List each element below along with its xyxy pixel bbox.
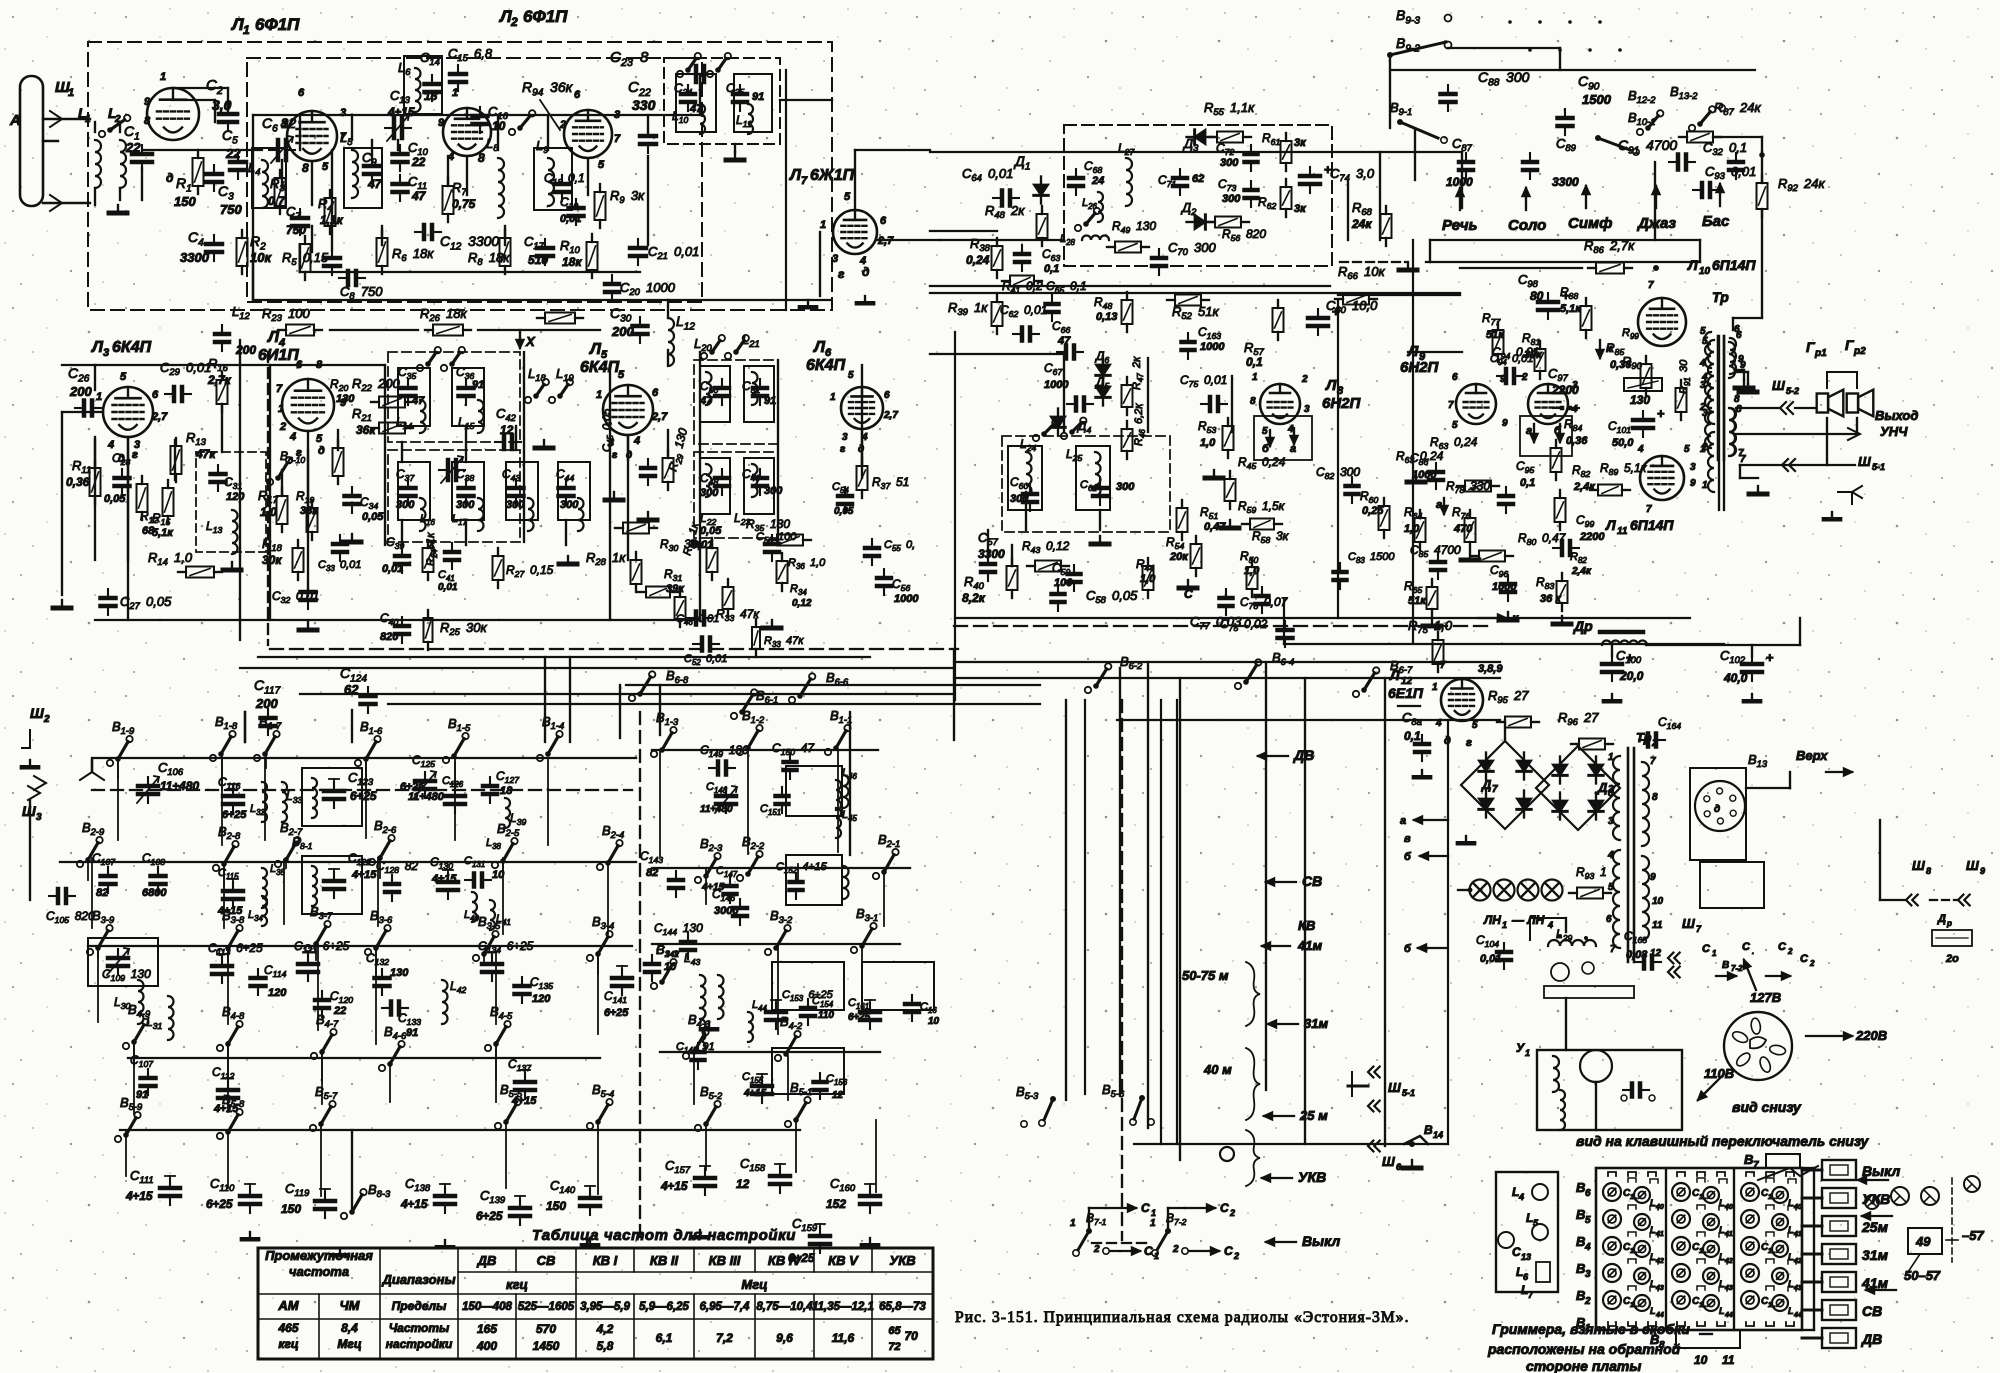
svg-text:25м: 25м [1861,1219,1889,1235]
svg-text:44: 44 [1724,1312,1733,1319]
svg-text:4,2: 4,2 [596,1322,614,1336]
svg-text:6÷25: 6÷25 [604,1007,629,1019]
svg-text:6Ф1П: 6Ф1П [255,15,300,34]
svg-text:82: 82 [96,887,108,899]
svg-text:4÷15: 4÷15 [511,1095,537,1107]
svg-text:6П14П: 6П14П [1630,517,1674,533]
svg-text:Диапазоны: Диапазоны [381,1272,455,1287]
svg-text:Джаз: Джаз [1636,215,1676,232]
svg-text:18: 18 [424,89,438,103]
svg-text:1: 1 [1070,1218,1076,1229]
svg-text:130: 130 [1630,393,1650,407]
svg-text:C18 0,1: C18 0,1 [544,171,585,187]
svg-text:кгц: кгц [506,1277,528,1292]
svg-text:3300: 3300 [1552,175,1579,189]
svg-text:120: 120 [226,491,245,503]
svg-text:1450: 1450 [533,1339,560,1353]
svg-text:C20 1000: C20 1000 [620,280,676,297]
svg-text:10: 10 [664,961,677,973]
svg-text:СВ: СВ [537,1253,556,1268]
svg-text:R92 24к: R92 24к [1778,176,1826,193]
svg-text:120: 120 [268,987,287,999]
svg-text:6800: 6800 [142,887,167,899]
svg-text:0,13: 0,13 [1096,311,1117,323]
svg-text:300: 300 [700,487,719,499]
svg-text:65: 65 [888,1325,901,1337]
svg-text:8: 8 [144,115,151,127]
svg-text:9: 9 [438,117,445,129]
svg-text:14: 14 [1433,1130,1443,1140]
svg-text:330: 330 [632,97,656,113]
svg-text:д: д [166,171,173,185]
svg-text:С: С [1702,943,1711,955]
svg-text:В: В [1576,1180,1585,1195]
svg-text:R95 27: R95 27 [1488,688,1529,705]
svg-text:300: 300 [764,485,783,497]
svg-text:525—1605: 525—1605 [518,1301,575,1313]
svg-text:Л: Л [1605,517,1616,533]
svg-text:18к: 18к [562,255,582,269]
svg-text:УНЧ: УНЧ [1880,424,1908,439]
svg-text:2: 2 [510,15,518,29]
svg-text:24к: 24к [1351,217,1372,231]
svg-text:р1: р1 [1814,348,1827,359]
svg-text:4÷15: 4÷15 [660,1179,688,1193]
svg-text:72: 72 [888,1341,900,1353]
svg-text:1: 1 [830,392,836,403]
svg-text:6К4П: 6К4П [112,339,152,356]
svg-text:б: б [1404,943,1412,955]
svg-text:750: 750 [220,202,242,217]
svg-text:91: 91 [752,91,764,103]
svg-text:41: 41 [1793,1231,1802,1238]
svg-text:2: 2 [1787,947,1793,956]
svg-text:Д: Д [1597,780,1608,795]
svg-text:частота: частота [289,1264,349,1279]
svg-text:C83 1500: C83 1500 [1348,551,1395,565]
svg-text:70: 70 [905,1329,919,1343]
svg-text:62: 62 [1192,173,1204,185]
svg-text:6П14П: 6П14П [1712,257,1756,273]
svg-text:2: 2 [559,119,566,131]
svg-text:0,05: 0,05 [834,506,854,517]
svg-text:1: 1 [596,389,602,401]
svg-text:R91 30: R91 30 [1678,359,1692,394]
svg-text:Гриммера, взятые в скобки: Гриммера, взятые в скобки [1492,1321,1690,1337]
svg-text:R87 24к: R87 24к [1714,100,1762,117]
svg-text:C75 0,02: C75 0,02 [1220,617,1268,633]
svg-text:8,2к: 8,2к [962,591,986,605]
svg-text:Промежуточная: Промежуточная [265,1248,373,1263]
svg-text:C15 6,8: C15 6,8 [448,46,493,63]
svg-text:Ш: Ш [1966,858,1979,873]
svg-text:25 м: 25 м [1299,1108,1328,1123]
svg-text:1: 1 [243,23,250,37]
svg-text:1,0: 1,0 [1200,437,1216,449]
svg-text:7: 7 [1610,944,1616,955]
svg-text:Мгц: Мгц [337,1337,361,1351]
svg-text:L: L [1788,1306,1794,1316]
svg-text:5: 5 [1262,426,1268,437]
svg-text:Симф: Симф [1568,215,1612,232]
svg-text:1: 1 [96,391,102,403]
svg-text:настройки: настройки [386,1337,453,1351]
svg-text:R45 0,24: R45 0,24 [1238,455,1286,471]
svg-text:91: 91 [136,1089,148,1101]
svg-text:C94 0,01: C94 0,01 [1490,353,1533,367]
svg-text:4: 4 [1699,358,1706,369]
svg-text:150: 150 [281,1202,301,1216]
svg-text:5-1: 5-1 [1872,462,1885,472]
svg-text:47: 47 [411,189,427,203]
svg-text:465: 465 [277,1321,298,1335]
svg-text:4÷15: 4÷15 [213,1103,239,1115]
svg-text:9: 9 [1650,872,1656,883]
svg-text:+: + [1657,406,1665,421]
svg-text:R35 130: R35 130 [746,517,790,533]
svg-text:165: 165 [477,1322,497,1336]
svg-text:42: 42 [1793,1258,1802,1265]
svg-text:11: 11 [1722,1353,1735,1367]
svg-text:0,1: 0,1 [1520,477,1535,489]
svg-text:Х: Х [525,334,536,349]
svg-text:39к: 39к [666,583,685,595]
svg-text:2: 2 [1607,784,1614,795]
svg-text:0,01: 0,01 [560,213,581,225]
svg-text:7: 7 [276,383,283,395]
svg-text:12: 12 [736,1177,750,1191]
svg-text:5-2: 5-2 [1786,386,1799,396]
svg-text:1: 1 [68,87,74,99]
svg-text:C32 0,01: C32 0,01 [272,589,319,605]
svg-text:110В: 110В [1704,1066,1734,1081]
svg-text:36к: 36к [356,423,376,437]
svg-text:C144 130: C144 130 [654,921,703,937]
svg-text:4: 4 [1637,444,1644,455]
svg-text:R80 0,47: R80 0,47 [1518,531,1567,547]
svg-text:в: в [1404,833,1411,845]
svg-text:10: 10 [1699,266,1711,277]
svg-text:2,4к: 2,4к [1573,481,1596,493]
svg-text:6И1П: 6И1П [258,347,299,364]
svg-text:2,7: 2,7 [151,411,168,423]
svg-text:Соло: Соло [1508,217,1546,234]
svg-text:0,75: 0,75 [452,197,476,211]
svg-text:13: 13 [1521,1252,1531,1262]
svg-text:R28 1к: R28 1к [586,550,626,567]
svg-text:7: 7 [1650,756,1656,767]
svg-text:3: 3 [1690,462,1696,473]
svg-text:4: 4 [633,435,640,447]
svg-text:Л: Л [1389,667,1400,683]
svg-text:КВ IV: КВ IV [768,1253,803,1268]
svg-text:ДВ: ДВ [1293,747,1314,763]
svg-text:2200: 2200 [1579,531,1605,543]
svg-text:C8 750: C8 750 [340,284,383,301]
svg-text:31м: 31м [1862,1247,1889,1263]
svg-text:КВ: КВ [1298,918,1315,933]
svg-text:Др: Др [1573,618,1593,634]
svg-text:22: 22 [333,1005,346,1017]
svg-text:6: 6 [1585,1188,1591,1199]
svg-text:91: 91 [472,379,484,391]
svg-text:6: 6 [152,389,159,401]
svg-text:Ш: Ш [1388,1080,1401,1095]
svg-text:1500: 1500 [1582,92,1612,107]
svg-text:Ш: Ш [1858,454,1871,469]
svg-text:6÷25: 6÷25 [476,1209,503,1223]
svg-text:11: 11 [1617,526,1628,537]
svg-text:C105 820: C105 820 [46,909,95,925]
svg-text:2: 2 [43,714,50,725]
svg-text:R47 2к: R47 2к [1131,356,1145,390]
svg-text:5: 5 [618,369,625,381]
svg-text:43: 43 [1793,1285,1802,1292]
svg-text:42: 42 [1724,1258,1733,1265]
svg-text:C62 0,01: C62 0,01 [1000,303,1047,319]
svg-text:0,1: 0,1 [1044,263,1059,275]
svg-text:5,9—6,25: 5,9—6,25 [639,1301,689,1313]
svg-text:43: 43 [1655,1285,1664,1292]
svg-text:5: 5 [1472,720,1478,731]
svg-text:Д: Д [1481,777,1492,792]
svg-text:0,05: 0,05 [362,511,384,523]
svg-text:300: 300 [456,499,475,511]
svg-text:5: 5 [322,161,329,173]
svg-text:6К4П: 6К4П [580,359,620,376]
svg-text:б: б [1404,851,1412,863]
svg-text:Л: Л [498,7,512,26]
svg-text:3к: 3к [1294,203,1307,215]
svg-text:2: 2 [1584,1296,1591,1307]
svg-text:кгц: кгц [278,1337,298,1351]
svg-text:6Н2П: 6Н2П [1400,359,1440,376]
svg-text:6: 6 [652,387,659,399]
svg-text:1: 1 [1525,1048,1530,1058]
svg-text:к: к [1512,611,1519,625]
svg-text:8: 8 [1652,792,1658,803]
svg-text:C113 6÷25: C113 6÷25 [208,941,263,957]
svg-text:2,7: 2,7 [883,410,898,421]
svg-text:0,24: 0,24 [966,253,990,267]
svg-text:Рис. 3-151. Принципиальная схе: Рис. 3-151. Принципиальная схема радиолы… [955,1309,1410,1326]
svg-text:40 м: 40 м [1203,1062,1232,1077]
svg-text:6,1: 6,1 [656,1331,673,1345]
svg-text:В: В [1576,1207,1585,1222]
svg-text:6: 6 [574,89,581,101]
svg-text:C85 4700: C85 4700 [1410,543,1461,559]
svg-text:7: 7 [1738,448,1744,459]
svg-text:С: С [1224,1244,1233,1258]
svg-text:C52 0,01: C52 0,01 [684,653,727,667]
svg-text:9,6: 9,6 [776,1331,793,1345]
svg-text:91: 91 [406,1027,418,1039]
svg-text:R43 0,12: R43 0,12 [1022,539,1070,555]
svg-text:300: 300 [396,499,415,511]
svg-text:Пределы: Пределы [392,1299,447,1313]
svg-text:3: 3 [1585,1269,1591,1280]
svg-text:Выкл: Выкл [1302,1233,1341,1249]
svg-text:расположены на обратной: расположены на обратной [1487,1341,1681,1357]
svg-text:1: 1 [1712,949,1717,958]
svg-text:1: 1 [1150,1218,1156,1229]
svg-text:3: 3 [1304,404,1310,415]
svg-text:C29 0,01: C29 0,01 [160,360,211,377]
svg-text:820: 820 [380,631,399,643]
svg-text:2,4к: 2,4к [1571,566,1592,577]
svg-text:Ш: Ш [1682,916,1695,931]
svg-text:5: 5 [848,370,854,381]
svg-text:3: 3 [832,253,838,265]
svg-text:31м: 31м [1304,1016,1328,1031]
svg-text:11,6: 11,6 [832,1331,855,1345]
svg-text:20,0: 20,0 [1619,669,1644,683]
svg-text:5: 5 [316,433,323,445]
svg-text:7: 7 [1440,660,1446,671]
svg-text:6÷25: 6÷25 [222,809,247,821]
svg-text:R36 1,0: R36 1,0 [788,557,826,571]
svg-text:4: 4 [1584,1242,1591,1253]
svg-text:R63 0,24: R63 0,24 [1430,435,1478,451]
svg-text:4÷15: 4÷15 [351,869,377,881]
svg-text:41: 41 [1724,1231,1733,1238]
svg-text:7: 7 [1448,400,1454,411]
svg-text:R46 6,2к: R46 6,2к [1133,403,1147,446]
svg-text:6: 6 [1606,914,1612,925]
svg-text:50-75 м: 50-75 м [1182,968,1229,983]
svg-text:40: 40 [1793,1204,1802,1211]
svg-text:Верх: Верх [1796,748,1828,763]
svg-text:2200: 2200 [1551,383,1579,397]
svg-text:ЧМ: ЧМ [339,1298,360,1313]
svg-text:41: 41 [1655,1231,1664,1238]
svg-text:R49 130: R49 130 [1112,219,1156,235]
svg-text:Таблица частот для настройки: Таблица частот для настройки [532,1227,796,1244]
svg-text:R56 820: R56 820 [1222,227,1266,243]
svg-text:В: В [1744,1152,1753,1167]
svg-text:Х: Х [427,539,436,551]
svg-text:3,8,9: 3,8,9 [1478,663,1503,675]
svg-text:R25 30к: R25 30к [440,620,488,637]
svg-text:110: 110 [818,1010,834,1021]
svg-text:R6 18к: R6 18к [392,246,434,263]
svg-text:4÷15: 4÷15 [125,1189,153,1203]
svg-text:7: 7 [1648,280,1654,291]
svg-text:Речь: Речь [1442,217,1478,234]
svg-text:62: 62 [344,682,359,697]
svg-text:2: 2 [281,119,288,131]
svg-text:41м: 41м [1297,938,1322,953]
svg-text:а: а [1400,815,1406,827]
svg-text:1: 1 [452,87,458,99]
svg-text:д: д [862,265,869,279]
svg-text:R75 1,0: R75 1,0 [1408,618,1453,635]
svg-text:1000: 1000 [894,593,919,605]
svg-text:C70 300: C70 300 [1168,240,1217,257]
svg-text:L: L [1650,1306,1656,1316]
svg-text:130: 130 [390,967,409,979]
svg-text:д: д [318,445,325,457]
svg-text:R59 1,5к: R59 1,5к [1238,499,1286,515]
svg-text:65,8—73: 65,8—73 [879,1301,926,1313]
svg-text:R27 0,15: R27 0,15 [506,563,554,579]
svg-text:R8 18к: R8 18к [468,250,510,267]
svg-text:5,1к: 5,1к [1560,303,1582,315]
svg-text:C32 0,1: C32 0,1 [1703,140,1747,157]
svg-text:С: С [1800,953,1809,965]
svg-text:50,0: 50,0 [1612,437,1634,449]
svg-text:1: 1 [1608,752,1614,763]
svg-text:Ш: Ш [30,705,44,721]
svg-text:2: 2 [1699,402,1706,413]
svg-text:Л: Л [230,15,244,34]
svg-text:д: д [1714,804,1720,815]
svg-text:АМ: АМ [277,1298,299,1313]
svg-text:7,2: 7,2 [716,1331,733,1345]
svg-text:1: 1 [1502,920,1507,930]
svg-text:R33 47к: R33 47к [716,607,760,623]
svg-text:р2: р2 [1853,346,1866,357]
svg-text:КВ III: КВ III [709,1253,741,1268]
svg-text:6: 6 [880,215,887,227]
svg-text:+: + [1332,304,1340,319]
svg-text:В: В [1424,1123,1433,1137]
svg-text:4÷15: 4÷15 [387,105,415,119]
svg-text:2: 2 [1301,374,1308,385]
svg-text:8,4: 8,4 [341,1321,358,1335]
svg-text:9: 9 [144,96,151,108]
svg-text:СВ: СВ [1302,873,1322,889]
svg-text:5: 5 [120,371,127,383]
svg-text:0,01: 0,01 [438,582,458,593]
svg-text:C93 0,01: C93 0,01 [1705,164,1756,181]
svg-text:11: 11 [1652,920,1663,931]
svg-text:33к: 33к [300,505,319,517]
svg-text:10: 10 [928,1016,940,1027]
svg-text:Л: Л [1407,343,1419,360]
svg-text:91: 91 [764,395,776,407]
svg-text:43: 43 [1724,1285,1733,1292]
svg-text:4÷15: 4÷15 [431,873,457,885]
svg-text:Мгц: Мгц [741,1277,767,1292]
svg-text:C: C [1512,1245,1521,1259]
svg-text:R23 100: R23 100 [262,306,311,323]
svg-text:R22 200: R22 200 [352,376,401,393]
svg-text:4: 4 [1435,718,1442,729]
svg-text:C58 0,05: C58 0,05 [1086,588,1138,605]
svg-text:1: 1 [1700,444,1706,455]
svg-text:0,01: 0,01 [382,563,403,575]
svg-text:вид на клавишный переключат: вид на клавишный переключатель снизу [1576,1133,1869,1149]
svg-text:стороне платы: стороне платы [1526,1358,1641,1373]
svg-text:–57: –57 [1962,1228,1984,1243]
svg-text:22: 22 [411,155,426,169]
svg-text:6,95—7,4: 6,95—7,4 [700,1301,750,1313]
svg-text:Ш: Ш [1772,378,1785,393]
svg-text:В: В [1576,1261,1585,1276]
svg-text:5: 5 [1684,444,1690,455]
svg-text:130: 130 [336,393,355,405]
svg-text:7-2: 7-2 [1731,964,1743,973]
svg-text:200: 200 [235,343,256,357]
svg-text:7: 7 [1753,1160,1759,1171]
svg-text:6: 6 [884,390,890,401]
svg-text:1: 1 [160,71,166,83]
svg-text:C64 0,01: C64 0,01 [962,166,1013,183]
svg-text:300: 300 [1010,493,1029,505]
svg-text:Д: Д [1937,913,1946,925]
svg-text:42: 42 [1655,1258,1664,1265]
